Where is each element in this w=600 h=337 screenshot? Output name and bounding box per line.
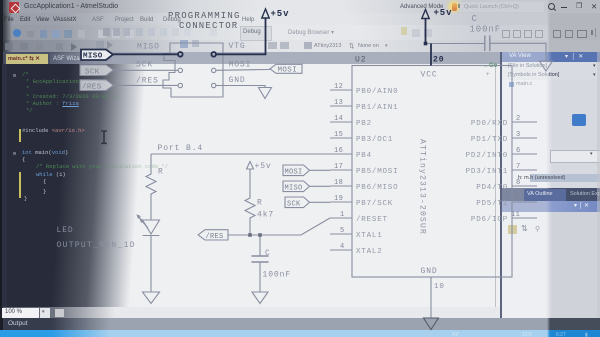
- svg-text:Port B.4: Port B.4: [158, 144, 204, 153]
- svg-text:PD5/T1: PD5/T1: [476, 200, 508, 208]
- svg-text:LED: LED: [57, 226, 74, 235]
- svg-text:13: 13: [334, 99, 343, 107]
- svg-text:PD0/RXD: PD0/RXD: [471, 120, 508, 128]
- svg-text:VCC: VCC: [421, 71, 438, 80]
- wire /RES tag: [114, 84, 179, 86]
- svg-text:PB1/AIN1: PB1/AIN1: [356, 104, 398, 112]
- svg-text:MOSI: MOSI: [278, 67, 298, 75]
- svg-text:17: 17: [334, 163, 343, 171]
- svg-text:2: 2: [516, 115, 521, 123]
- svg-text:R: R: [158, 168, 164, 177]
- junction dot A: [248, 233, 252, 237]
- svg-text:PD1/TXD: PD1/TXD: [471, 136, 508, 144]
- svg-text:XTAL2: XTAL2: [356, 248, 383, 256]
- svg-text:5: 5: [340, 227, 345, 235]
- svg-text:R: R: [257, 199, 263, 208]
- svg-text:9: 9: [516, 195, 521, 203]
- LED emission arrows: [137, 215, 148, 228]
- svg-text:PD3/INT1: PD3/INT1: [466, 168, 508, 176]
- ground (U2): [424, 318, 439, 330]
- resistor R (LED): [146, 172, 156, 196]
- U2 gnd stub pin10: [430, 277, 432, 318]
- capacitor C3 100nF: [252, 256, 269, 262]
- washed copy of code (right of gradient): [0, 64, 500, 307]
- ground (connector): [259, 88, 272, 99]
- ground (LED): [143, 292, 160, 304]
- svg-text:SCK: SCK: [85, 69, 100, 77]
- svg-text:+5v: +5v: [271, 9, 290, 19]
- U2 right pin stubs: [512, 122, 537, 218]
- wire VTG to +5v dark: [216, 18, 266, 54]
- svg-text:PB4: PB4: [356, 152, 372, 160]
- svg-text:CONNECTOR: CONNECTOR: [179, 21, 238, 31]
- svg-text:PD4/T0: PD4/T0: [476, 184, 508, 192]
- ground (C2): [540, 61, 553, 71]
- svg-text:19: 19: [334, 195, 343, 203]
- pin circle J1-3: [178, 68, 182, 72]
- LED D1: [143, 220, 160, 234]
- wire LED to gnd: [150, 236, 152, 292]
- wire R to LED: [150, 196, 152, 220]
- wire VCC pin20 drop dark: [430, 44, 432, 66]
- svg-text:7: 7: [516, 163, 521, 171]
- I-beam cursor: [101, 131, 106, 144]
- svg-text:MOSI: MOSI: [229, 61, 252, 70]
- svg-text:/RES: /RES: [82, 84, 102, 92]
- +5v arrow (U2) dark: [422, 10, 429, 19]
- svg-text:/RESET: /RESET: [356, 216, 388, 224]
- svg-text:XTAL1: XTAL1: [356, 232, 383, 240]
- wire MISO dark: [113, 53, 178, 55]
- svg-text:GND: GND: [229, 76, 246, 85]
- svg-text:PB0/AIN0: PB0/AIN0: [356, 88, 398, 96]
- svg-text:PB2: PB2: [356, 120, 372, 128]
- wire C3 to gnd: [259, 263, 261, 292]
- tag /RES (mid): [198, 230, 228, 240]
- pin circle J1-4: [212, 68, 216, 72]
- tag SCK: [80, 65, 114, 76]
- svg-text:11: 11: [511, 211, 520, 219]
- tag SCK (U2): [285, 197, 330, 208]
- svg-text:PB3/OC1: PB3/OC1: [356, 136, 393, 144]
- svg-text:14: 14: [334, 115, 343, 123]
- svg-text:MOSI: MOSI: [285, 168, 303, 176]
- IC U2 body: [352, 66, 512, 278]
- svg-text:20: 20: [433, 56, 444, 65]
- LED cathode bar: [143, 235, 160, 237]
- svg-text:PD2/INT0: PD2/INT0: [466, 152, 508, 160]
- svg-text:OUTPUT_RUN_1D: OUTPUT_RUN_1D: [57, 241, 136, 250]
- svg-text:MISO: MISO: [285, 184, 303, 192]
- pin circle J1-2 dark: [211, 52, 216, 57]
- svg-text:16: 16: [334, 147, 343, 155]
- junction dot VCC: [424, 42, 428, 46]
- svg-text:C: C: [265, 249, 271, 258]
- wire LED branch vertical top: [150, 154, 152, 172]
- tag MISO (U2): [283, 181, 330, 192]
- wire +5v to VCC dark: [425, 19, 427, 44]
- U2 pin numbers and names: [334, 83, 521, 251]
- svg-text:15: 15: [334, 131, 343, 139]
- wire /RES net: [228, 218, 330, 235]
- wire C2 to gnd: [491, 43, 547, 60]
- svg-text:PD6/ICP: PD6/ICP: [471, 216, 508, 224]
- svg-text:6: 6: [516, 147, 521, 155]
- U2 left pin stubs: [330, 90, 352, 250]
- svg-text:+5v: +5v: [255, 162, 272, 171]
- capacitor C2 wire left: [426, 43, 485, 45]
- svg-text:C: C: [472, 14, 478, 24]
- svg-text:MISO: MISO: [137, 43, 160, 52]
- svg-text:U2: U2: [355, 56, 366, 65]
- svg-text:ATTiny2313-20SUR: ATTiny2313-20SUR: [418, 139, 427, 235]
- svg-text:12: 12: [334, 83, 343, 91]
- tag MOSI (U2): [283, 165, 330, 176]
- tag MISO (dark, selected): [81, 50, 113, 61]
- svg-text:/RES: /RES: [206, 233, 224, 241]
- ground (C3): [252, 292, 268, 304]
- wire SCK tag: [114, 69, 179, 71]
- connector J1 body: [163, 43, 223, 97]
- wire cap C3 top: [259, 235, 261, 256]
- svg-text:MISO: MISO: [83, 53, 103, 61]
- wire GND connector: [216, 86, 265, 88]
- svg-text:PROGRAMMING: PROGRAMMING: [168, 11, 241, 21]
- wire Port B.4 to PB4: [151, 153, 352, 155]
- svg-text:4: 4: [340, 243, 345, 251]
- svg-text:SCK: SCK: [287, 200, 301, 208]
- junction dot B: [258, 233, 262, 237]
- resistor R2 4k7: [245, 196, 255, 221]
- svg-text:+5v: +5v: [434, 8, 453, 18]
- svg-text:100nF: 100nF: [263, 271, 292, 280]
- tag MOSI right: [270, 64, 302, 73]
- wire R2 to junction: [249, 221, 251, 235]
- svg-text:PB7/SCK: PB7/SCK: [356, 200, 393, 208]
- svg-text:/RES: /RES: [136, 77, 159, 86]
- svg-text:PB6/MISO: PB6/MISO: [356, 184, 398, 192]
- svg-text:8: 8: [516, 179, 521, 187]
- selected net: MISO tag: [81, 9, 431, 66]
- svg-text:100nF: 100nF: [470, 25, 502, 35]
- tag /RES: [80, 80, 114, 91]
- svg-text:3: 3: [516, 131, 521, 139]
- svg-text:4k7: 4k7: [257, 211, 274, 220]
- pin circle J1-1 dark: [178, 52, 183, 57]
- +5v arrow (mid): [247, 162, 254, 170]
- pin circle J1-6: [212, 83, 216, 87]
- schematic text labels: [57, 8, 502, 291]
- svg-text:1: 1: [340, 211, 345, 219]
- wire MOSI to tag: [216, 69, 270, 72]
- wire +5v to R2: [249, 169, 251, 196]
- svg-text:PB5/MOSI: PB5/MOSI: [356, 168, 398, 176]
- svg-text:GND: GND: [421, 267, 438, 276]
- svg-text:VTG: VTG: [229, 42, 246, 51]
- pin circle J1-5: [178, 83, 182, 87]
- svg-text:18: 18: [334, 179, 343, 187]
- +5v arrow (connector) dark: [262, 9, 269, 18]
- svg-text:SCK: SCK: [136, 61, 153, 70]
- capacitor C2 100nF: [485, 36, 490, 52]
- svg-text:10: 10: [434, 283, 445, 291]
